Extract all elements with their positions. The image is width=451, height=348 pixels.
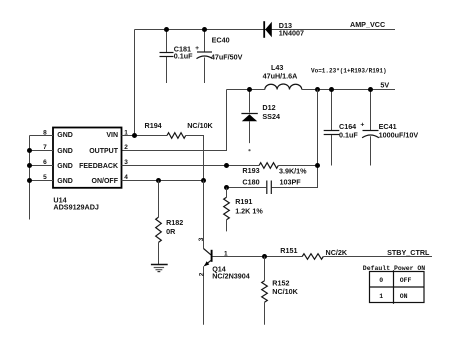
svg-text:+: + bbox=[360, 121, 364, 128]
svg-text:FEEDBACK: FEEDBACK bbox=[79, 163, 118, 170]
junction pin5 bus bbox=[27, 178, 32, 183]
svg-text:0: 0 bbox=[379, 277, 383, 284]
svg-text:5V: 5V bbox=[380, 80, 389, 89]
resistor R191 bbox=[224, 188, 264, 232]
svg-text:1: 1 bbox=[379, 293, 383, 300]
junction base / R152 node bbox=[262, 254, 267, 259]
svg-text:3.9K/1%: 3.9K/1% bbox=[279, 166, 307, 175]
table Default Power ON bbox=[363, 265, 426, 304]
svg-text:ON: ON bbox=[400, 293, 408, 300]
svg-text:3: 3 bbox=[198, 237, 205, 241]
junction C181 top bbox=[164, 27, 169, 32]
wire OUTPUT pin2 to switch-node riser bbox=[122, 90, 227, 151]
svg-text:SS24: SS24 bbox=[262, 112, 280, 121]
junction pin7 bus bbox=[27, 148, 32, 153]
svg-text:Vo=1.23*(1+R193/R191): Vo=1.23*(1+R193/R191) bbox=[311, 67, 387, 74]
junction FB node right bbox=[315, 163, 320, 168]
svg-text:GND: GND bbox=[57, 148, 73, 155]
svg-text:C180: C180 bbox=[242, 177, 259, 186]
svg-text:GND: GND bbox=[57, 132, 73, 139]
svg-text:1.2K 1%: 1.2K 1% bbox=[235, 206, 263, 215]
capacitor C181 bbox=[160, 30, 194, 84]
ground bbox=[151, 265, 168, 272]
capacitor C180 bbox=[227, 177, 318, 194]
capacitor C164 bbox=[324, 90, 359, 166]
svg-text:3: 3 bbox=[124, 159, 128, 166]
svg-text:GND: GND bbox=[57, 163, 73, 170]
junction FB node left bbox=[224, 163, 229, 168]
svg-text:VIN: VIN bbox=[106, 132, 118, 139]
svg-text:47uH/1.6A: 47uH/1.6A bbox=[263, 71, 298, 80]
svg-text:2: 2 bbox=[124, 144, 128, 151]
svg-text:NC/2N3904: NC/2N3904 bbox=[212, 271, 250, 280]
capacitor EC40 polarized bbox=[195, 30, 243, 84]
inductor L43 bbox=[263, 63, 302, 90]
pin 1 bbox=[122, 135, 168, 137]
svg-text:R194: R194 bbox=[145, 121, 162, 130]
svg-text:6: 6 bbox=[43, 159, 47, 166]
junction R182 tap bbox=[156, 178, 161, 183]
resistor R152 bbox=[262, 257, 299, 325]
pin 4 bbox=[122, 180, 204, 182]
junction EC41 at rail bbox=[368, 87, 373, 92]
svg-text:1: 1 bbox=[124, 129, 128, 136]
resistor R182 bbox=[156, 181, 184, 265]
svg-text:NC/10K: NC/10K bbox=[272, 287, 298, 296]
transistor Q14 NC/2N3904 bbox=[198, 181, 250, 325]
svg-text:0R: 0R bbox=[166, 227, 176, 236]
svg-text:+: + bbox=[195, 45, 199, 52]
junction ON/OFF collector node bbox=[201, 178, 206, 183]
pin 5 bbox=[30, 180, 54, 182]
svg-text:4: 4 bbox=[124, 174, 128, 181]
svg-text:R151: R151 bbox=[280, 246, 297, 255]
svg-text:0.1uF: 0.1uF bbox=[174, 51, 193, 60]
svg-text:2: 2 bbox=[198, 272, 205, 276]
svg-text:5: 5 bbox=[43, 174, 47, 181]
junction D12 at rail bbox=[247, 87, 252, 92]
wire VIN riser from top rail to pin 1 bbox=[134, 30, 136, 136]
svg-text:7: 7 bbox=[43, 144, 47, 151]
svg-text:R193: R193 bbox=[242, 166, 259, 175]
svg-text:AMP_VCC: AMP_VCC bbox=[350, 20, 385, 29]
pin 7 bbox=[30, 150, 54, 152]
IC U14 body bbox=[53, 128, 122, 212]
wire Q14 base to R151 bbox=[212, 256, 302, 258]
junction C164 at rail bbox=[329, 87, 334, 92]
svg-text:EC40: EC40 bbox=[212, 35, 230, 44]
junction feedback riser at rail bbox=[315, 87, 320, 92]
resistor R193 bbox=[227, 163, 318, 176]
svg-text:47uF/50V: 47uF/50V bbox=[211, 52, 243, 61]
svg-text:8: 8 bbox=[43, 129, 47, 136]
wire 5V rail right segment bbox=[302, 89, 395, 91]
wire 5V rail left segment bbox=[227, 89, 265, 91]
svg-text:D12: D12 bbox=[262, 103, 275, 112]
svg-text:ADS9129ADJ: ADS9129ADJ bbox=[53, 203, 99, 212]
svg-text:OFF: OFF bbox=[400, 277, 412, 284]
wire AMP_VCC top rail bbox=[135, 29, 396, 31]
svg-text:GND: GND bbox=[57, 178, 73, 185]
svg-text:103PF: 103PF bbox=[280, 177, 302, 186]
diode D13 1N4007 bbox=[264, 21, 304, 38]
resistor R151 bbox=[280, 246, 432, 259]
capacitor EC41 polarized bbox=[360, 90, 418, 166]
svg-text:1N4007: 1N4007 bbox=[279, 29, 304, 38]
svg-text:STBY_CTRL: STBY_CTRL bbox=[387, 248, 430, 257]
wire R194 to ON/OFF node bbox=[186, 136, 204, 181]
resistor R194 bbox=[145, 121, 214, 138]
svg-text:0.1uF: 0.1uF bbox=[339, 131, 358, 140]
svg-text:R191: R191 bbox=[235, 197, 252, 206]
svg-text:NC/2K: NC/2K bbox=[326, 248, 348, 257]
pin 6 bbox=[30, 165, 54, 167]
svg-text:1000uF/10V: 1000uF/10V bbox=[379, 131, 419, 140]
svg-text:ON/OFF: ON/OFF bbox=[92, 178, 119, 185]
junction pin1 AMP_VCC riser bbox=[132, 133, 137, 138]
wire feedback riser bbox=[272, 90, 318, 188]
diode D12 SS24 bbox=[241, 90, 280, 152]
junction pin6 bus bbox=[27, 163, 32, 168]
wire GND bus bbox=[29, 136, 31, 220]
junction EC40 top bbox=[202, 27, 207, 32]
svg-text:OUTPUT: OUTPUT bbox=[89, 148, 119, 155]
pin 8 bbox=[30, 135, 54, 137]
junction C180 left / R191 top bbox=[224, 185, 229, 190]
pin 3 bbox=[122, 165, 227, 167]
svg-text:NC/10K: NC/10K bbox=[187, 121, 213, 130]
